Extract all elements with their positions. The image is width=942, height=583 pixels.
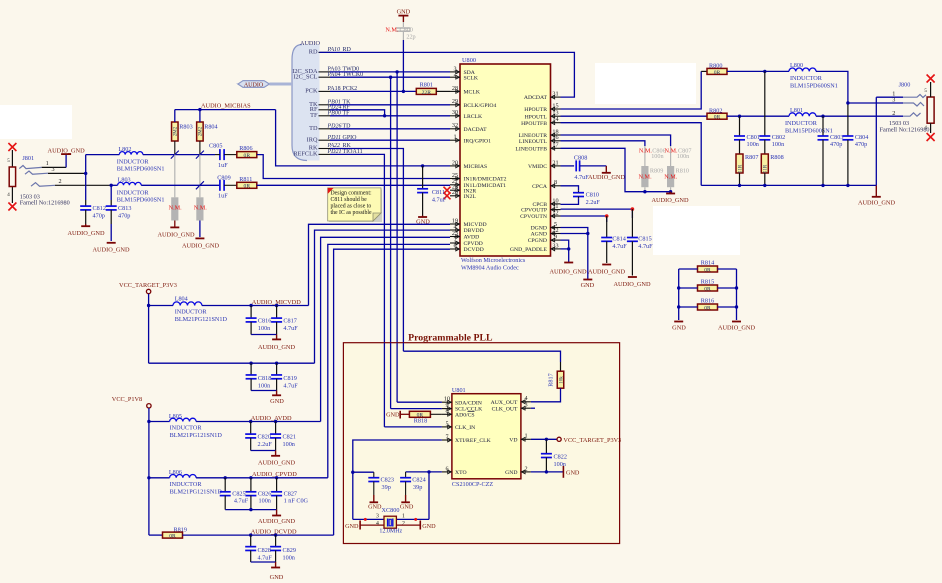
svg-text:AD0/CS: AD0/CS xyxy=(455,412,475,418)
svg-text:GND: GND xyxy=(672,325,686,332)
svg-text:2: 2 xyxy=(524,465,527,472)
svg-text:30: 30 xyxy=(452,109,458,116)
svg-text:AUDIO_GND: AUDIO_GND xyxy=(613,281,651,288)
svg-text:INDUCTOR: INDUCTOR xyxy=(170,425,203,432)
svg-text:BLM15PD600SN1: BLM15PD600SN1 xyxy=(117,166,165,173)
svg-text:C820: C820 xyxy=(258,434,271,441)
svg-text:VCC_P1V8: VCC_P1V8 xyxy=(112,396,142,403)
svg-text:AUDIO_GND: AUDIO_GND xyxy=(588,174,626,181)
svg-text:HPOUTL: HPOUTL xyxy=(525,114,548,120)
svg-text:28: 28 xyxy=(452,85,458,92)
svg-text:VMIDC: VMIDC xyxy=(528,164,547,170)
svg-text:4.7uF: 4.7uF xyxy=(638,243,653,250)
svg-text:100n: 100n xyxy=(259,498,271,505)
svg-text:INDUCTOR: INDUCTOR xyxy=(117,159,150,166)
svg-text:C802: C802 xyxy=(772,134,785,141)
svg-text:BLM15PD600SN1: BLM15PD600SN1 xyxy=(785,127,833,134)
svg-text:HPOUTFB: HPOUTFB xyxy=(521,121,547,127)
svg-text:WM8904 Audio Codec: WM8904 Audio Codec xyxy=(461,264,519,271)
svg-text:AUDIO_GND: AUDIO_GND xyxy=(258,460,296,467)
svg-text:2: 2 xyxy=(58,178,61,185)
svg-text:C812: C812 xyxy=(93,205,106,212)
svg-text:2M2: 2M2 xyxy=(199,126,204,136)
svg-text:SCLK: SCLK xyxy=(464,75,479,81)
svg-text:N.M.: N.M. xyxy=(169,205,183,212)
svg-text:Programmable PLL: Programmable PLL xyxy=(408,333,493,344)
svg-text:J801: J801 xyxy=(22,155,34,162)
svg-text:4.7uF: 4.7uF xyxy=(258,555,273,562)
svg-text:2: 2 xyxy=(453,71,456,78)
svg-text:AGND: AGND xyxy=(531,232,547,238)
svg-text:29: 29 xyxy=(452,98,458,105)
svg-text:PCK: PCK xyxy=(305,88,318,95)
svg-text:C814: C814 xyxy=(612,235,625,242)
svg-text:C829: C829 xyxy=(283,547,296,554)
svg-text:R807: R807 xyxy=(745,154,758,161)
svg-text:DCVDD: DCVDD xyxy=(464,247,484,253)
svg-text:R803: R803 xyxy=(179,124,192,131)
svg-text:9: 9 xyxy=(554,234,557,241)
svg-text:2M2: 2M2 xyxy=(174,126,179,136)
svg-text:39p: 39p xyxy=(413,484,422,491)
svg-text:8: 8 xyxy=(554,179,557,186)
svg-text:2.2uF: 2.2uF xyxy=(586,199,601,206)
svg-text:GND: GND xyxy=(581,282,595,289)
svg-text:0R: 0R xyxy=(714,70,721,76)
svg-text:AUDIO_GND: AUDIO_GND xyxy=(258,344,296,351)
svg-text:XTO: XTO xyxy=(455,470,467,476)
svg-text:0R: 0R xyxy=(169,534,176,540)
svg-text:AUDIO_GND: AUDIO_GND xyxy=(858,200,896,207)
svg-text:GND: GND xyxy=(270,398,284,405)
svg-text:the IC as possible: the IC as possible xyxy=(331,210,372,216)
svg-text:51R: 51R xyxy=(738,164,743,173)
svg-text:R809: R809 xyxy=(650,167,663,174)
svg-text:10k: 10k xyxy=(559,376,564,384)
svg-text:0R: 0R xyxy=(244,153,251,159)
svg-text:L803: L803 xyxy=(118,177,131,184)
svg-text:R804: R804 xyxy=(204,124,217,131)
svg-text:20: 20 xyxy=(452,159,458,166)
svg-text:CLK_IN: CLK_IN xyxy=(455,425,475,431)
svg-text:AUDIO_MICBIAS: AUDIO_MICBIAS xyxy=(201,103,251,110)
svg-text:AUDIO_GND: AUDIO_GND xyxy=(182,243,220,250)
svg-text:C819: C819 xyxy=(283,375,296,382)
svg-text:N.M.: N.M. xyxy=(194,205,208,212)
svg-text:0R: 0R xyxy=(244,184,251,190)
svg-text:BLM21PG121SN1D: BLM21PG121SN1D xyxy=(170,432,223,439)
svg-text:INDUCTOR: INDUCTOR xyxy=(117,190,150,197)
svg-text:4.7uF: 4.7uF xyxy=(283,383,298,390)
svg-text:GND: GND xyxy=(345,523,359,530)
svg-text:1: 1 xyxy=(453,134,456,141)
svg-text:GND: GND xyxy=(368,503,382,510)
svg-text:TD: TD xyxy=(309,125,318,132)
svg-text:AUDIO_GND: AUDIO_GND xyxy=(48,148,86,155)
svg-text:INDUCTOR: INDUCTOR xyxy=(175,308,208,315)
svg-text:51R: 51R xyxy=(764,164,769,173)
svg-text:IRQ/GPIO1: IRQ/GPIO1 xyxy=(464,138,492,144)
svg-text:C824: C824 xyxy=(412,477,425,484)
svg-text:100n: 100n xyxy=(283,441,295,448)
svg-text:XC800: XC800 xyxy=(382,507,400,514)
svg-text:C825: C825 xyxy=(232,490,245,497)
svg-text:U801: U801 xyxy=(452,387,466,394)
svg-text:R817: R817 xyxy=(548,373,555,386)
svg-text:VD: VD xyxy=(509,437,517,443)
svg-text:IRQ: IRQ xyxy=(307,136,318,143)
svg-text:1: 1 xyxy=(402,514,405,520)
svg-text:GND: GND xyxy=(397,9,411,16)
svg-text:0R: 0R xyxy=(704,267,711,273)
svg-text:C803: C803 xyxy=(830,134,843,141)
svg-text:22p: 22p xyxy=(406,34,415,41)
svg-text:100n: 100n xyxy=(747,141,759,148)
svg-text:C811 should be: C811 should be xyxy=(331,197,368,203)
svg-text:GND: GND xyxy=(386,412,400,419)
svg-text:100n: 100n xyxy=(258,325,270,332)
svg-text:C816: C816 xyxy=(258,318,271,325)
svg-text:C826: C826 xyxy=(258,490,271,497)
svg-text:CLK_OUT: CLK_OUT xyxy=(492,406,518,412)
svg-text:RD: RD xyxy=(309,49,318,56)
svg-text:C815: C815 xyxy=(638,235,651,242)
svg-text:GND: GND xyxy=(270,574,284,581)
svg-text:7: 7 xyxy=(445,433,448,440)
svg-text:XTI/REF_CLK: XTI/REF_CLK xyxy=(455,438,492,444)
svg-text:Farnell No:1216980: Farnell No:1216980 xyxy=(880,126,930,133)
svg-text:ADCDAT: ADCDAT xyxy=(524,95,548,101)
svg-text:AVDD: AVDD xyxy=(464,235,480,241)
svg-text:C823: C823 xyxy=(381,477,394,484)
svg-text:J800: J800 xyxy=(899,82,911,89)
svg-text:CS2100CP-CZZ: CS2100CP-CZZ xyxy=(452,481,493,488)
svg-text:C817: C817 xyxy=(283,318,296,325)
svg-text:LINEOUTFB: LINEOUTFB xyxy=(515,146,547,152)
svg-text:CPGND: CPGND xyxy=(528,238,547,244)
svg-text:CPVOUTP: CPVOUTP xyxy=(521,208,547,214)
svg-text:C810: C810 xyxy=(586,191,599,198)
svg-text:CPCA: CPCA xyxy=(532,184,548,190)
svg-text:C818: C818 xyxy=(258,375,271,382)
svg-text:100n: 100n xyxy=(258,383,270,390)
svg-text:17: 17 xyxy=(552,142,558,149)
svg-text:R808: R808 xyxy=(770,154,783,161)
svg-text:AUDIO_CPVDD: AUDIO_CPVDD xyxy=(252,471,297,478)
svg-text:2.2uF: 2.2uF xyxy=(258,441,273,448)
svg-text:4.7uF: 4.7uF xyxy=(283,325,298,332)
svg-text:12.0MHz: 12.0MHz xyxy=(379,528,402,534)
svg-text:BLM15PD600SN1: BLM15PD600SN1 xyxy=(790,83,838,90)
svg-text:1: 1 xyxy=(524,433,527,440)
svg-text:4.7uF: 4.7uF xyxy=(234,498,249,505)
svg-text:C821: C821 xyxy=(283,434,296,441)
svg-text:2: 2 xyxy=(402,521,405,527)
svg-text:LINEOUTL: LINEOUTL xyxy=(519,139,548,145)
svg-text:1 nF C0G: 1 nF C0G xyxy=(284,498,309,505)
svg-text:3: 3 xyxy=(892,97,895,104)
svg-text:R818: R818 xyxy=(414,417,427,424)
svg-text:INDUCTOR: INDUCTOR xyxy=(785,120,818,127)
svg-text:VCC_TARGET_P3V3: VCC_TARGET_P3V3 xyxy=(119,282,177,289)
svg-text:GND_PADDLE: GND_PADDLE xyxy=(510,247,548,253)
svg-text:100n: 100n xyxy=(651,153,663,160)
svg-text:GND: GND xyxy=(400,503,414,510)
svg-text:26: 26 xyxy=(452,189,458,196)
svg-text:16: 16 xyxy=(552,134,558,141)
svg-text:0R: 0R xyxy=(704,286,711,292)
svg-text:INDUCTOR: INDUCTOR xyxy=(170,481,203,488)
svg-text:AUDIO: AUDIO xyxy=(244,82,264,88)
svg-text:R810: R810 xyxy=(676,167,689,174)
svg-text:U800: U800 xyxy=(462,57,476,64)
svg-text:LRCLK: LRCLK xyxy=(464,114,484,120)
svg-text:3: 3 xyxy=(51,166,54,173)
svg-text:HPOUTR: HPOUTR xyxy=(524,107,547,113)
svg-text:C827: C827 xyxy=(284,490,297,497)
svg-text:2: 2 xyxy=(892,110,895,117)
svg-text:AUDIO_GND: AUDIO_GND xyxy=(549,269,587,276)
svg-text:4: 4 xyxy=(376,521,379,527)
svg-text:AUDIO_DCVDD: AUDIO_DCVDD xyxy=(251,529,297,536)
svg-text:1: 1 xyxy=(46,160,49,167)
svg-text:6: 6 xyxy=(453,242,456,249)
svg-text:8: 8 xyxy=(445,408,448,415)
svg-text:15: 15 xyxy=(552,102,558,109)
svg-text:AUDIO_AVDD: AUDIO_AVDD xyxy=(251,415,292,422)
svg-text:3: 3 xyxy=(524,402,527,409)
svg-text:N.M.: N.M. xyxy=(664,174,678,181)
svg-text:12: 12 xyxy=(552,209,558,216)
svg-text:33: 33 xyxy=(552,242,558,249)
svg-text:0R: 0R xyxy=(714,115,721,121)
svg-text:REFCLK: REFCLK xyxy=(293,151,318,158)
svg-text:AUDIO_GND: AUDIO_GND xyxy=(588,269,626,276)
svg-text:AUDIO_GND: AUDIO_GND xyxy=(92,247,130,254)
svg-text:5: 5 xyxy=(445,420,448,427)
svg-text:C822: C822 xyxy=(554,454,567,461)
svg-text:TF: TF xyxy=(310,112,318,119)
svg-text:AUDIO_GND: AUDIO_GND xyxy=(718,325,756,332)
svg-text:31: 31 xyxy=(552,91,558,98)
svg-text:Design comment:: Design comment: xyxy=(331,191,372,197)
svg-text:BLM21PG121SN1D: BLM21PG121SN1D xyxy=(170,488,223,495)
svg-text:100n: 100n xyxy=(772,141,784,148)
svg-text:6: 6 xyxy=(445,465,448,472)
svg-text:C805: C805 xyxy=(209,143,222,150)
svg-text:14: 14 xyxy=(552,116,558,123)
svg-text:1uF: 1uF xyxy=(218,162,228,169)
svg-text:IN1R/DMICDAT2: IN1R/DMICDAT2 xyxy=(464,177,507,183)
svg-text:BCLK/GPIO4: BCLK/GPIO4 xyxy=(464,103,497,109)
svg-text:C813: C813 xyxy=(118,205,131,212)
svg-text:0R: 0R xyxy=(704,305,711,311)
svg-text:GND: GND xyxy=(566,470,580,477)
svg-text:AUDIO_GND: AUDIO_GND xyxy=(157,232,195,239)
svg-text:100n: 100n xyxy=(283,555,295,562)
svg-text:100n: 100n xyxy=(677,153,689,160)
svg-text:470p: 470p xyxy=(830,141,842,148)
svg-text:C811: C811 xyxy=(432,189,445,196)
svg-text:SDA/CDIN: SDA/CDIN xyxy=(455,400,482,406)
svg-text:4.7uF: 4.7uF xyxy=(432,197,447,204)
svg-text:C828: C828 xyxy=(258,547,271,554)
svg-text:470p: 470p xyxy=(118,213,130,220)
svg-text:Farnell No:1216980: Farnell No:1216980 xyxy=(20,200,70,207)
svg-text:AUX_OUT: AUX_OUT xyxy=(491,400,518,406)
svg-text:C804: C804 xyxy=(855,134,868,141)
svg-text:MCLK: MCLK xyxy=(464,90,481,96)
svg-text:39p: 39p xyxy=(382,484,391,491)
svg-text:CPVOUTN: CPVOUTN xyxy=(520,214,547,220)
svg-text:470p: 470p xyxy=(93,213,105,220)
svg-text:AUDIO_GND: AUDIO_GND xyxy=(651,197,689,204)
svg-text:IN2L: IN2L xyxy=(464,194,477,200)
svg-text:AUDIO: AUDIO xyxy=(300,40,320,47)
svg-text:1uF: 1uF xyxy=(218,193,228,200)
svg-text:Wolfson Microelectronics: Wolfson Microelectronics xyxy=(461,257,526,264)
svg-text:DACDAT: DACDAT xyxy=(464,127,488,133)
svg-text:DBVDD: DBVDD xyxy=(464,228,484,234)
svg-text:470p: 470p xyxy=(855,141,867,148)
svg-text:32: 32 xyxy=(452,122,458,129)
svg-text:placed as close to: placed as close to xyxy=(331,204,372,210)
svg-text:AUDIO_GND: AUDIO_GND xyxy=(258,518,296,525)
svg-text:GND: GND xyxy=(505,470,517,476)
svg-text:GND: GND xyxy=(422,523,436,530)
svg-text:VCC_TARGET_P3V3: VCC_TARGET_P3V3 xyxy=(563,437,621,444)
svg-text:INDUCTOR: INDUCTOR xyxy=(790,75,823,82)
svg-text:C801: C801 xyxy=(747,134,760,141)
svg-text:BLM15PD600SN1: BLM15PD600SN1 xyxy=(117,197,165,204)
svg-text:I2C_SCL: I2C_SCL xyxy=(293,73,317,80)
svg-text:AUDIO_GND: AUDIO_GND xyxy=(67,230,105,237)
svg-text:N.M.: N.M. xyxy=(385,27,399,34)
svg-text:N.M.: N.M. xyxy=(639,174,653,181)
svg-text:3: 3 xyxy=(376,514,379,520)
svg-text:MICBIAS: MICBIAS xyxy=(464,164,488,170)
svg-text:22R: 22R xyxy=(422,90,432,96)
svg-text:4.7uF: 4.7uF xyxy=(612,243,627,250)
svg-text:21: 21 xyxy=(552,159,558,166)
svg-text:R801: R801 xyxy=(420,82,433,89)
svg-text:BLM21PG121SN1D: BLM21PG121SN1D xyxy=(175,316,228,323)
